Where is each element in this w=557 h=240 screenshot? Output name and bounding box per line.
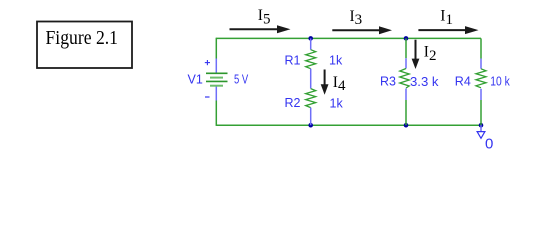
pin: R4 top (480, 59, 482, 69)
wire: R3 branch upper (405, 38, 407, 58)
node: bottom of R3 branch (404, 123, 409, 128)
svg-text:5 V: 5 V (234, 73, 249, 87)
R4 zigzag (476, 69, 486, 88)
wire: R3 branch lower (405, 100, 407, 125)
node: bottom right / ground node (479, 123, 484, 128)
pin: battery top (215, 59, 217, 74)
battery plate short 2 (210, 85, 223, 87)
wire: bottom rail (216, 124, 481, 126)
wire: left branch upper (215, 38, 217, 59)
battery plate short 1 (210, 77, 223, 79)
node: bottom of R1 branch (308, 123, 313, 128)
svg-text:V1: V1 (188, 72, 203, 86)
current arrow I4 (321, 70, 329, 95)
pin: R1 bottom + R2 top (310, 69, 312, 89)
svg-text:I5: I5 (258, 7, 271, 27)
ground (477, 125, 493, 152)
pin: battery bottom (215, 86, 217, 101)
pin: R4 bottom (480, 89, 482, 100)
svg-text:R3: R3 (380, 75, 396, 89)
svg-text:10 k: 10 k (490, 75, 510, 89)
svg-text:I4: I4 (333, 74, 346, 94)
node: top of R1 branch (308, 36, 313, 41)
current arrow I5 (230, 25, 291, 33)
battery minus sign (205, 96, 210, 98)
current arrow I1 (418, 26, 478, 34)
ground triangle (477, 132, 485, 139)
svg-text:1k: 1k (330, 97, 344, 111)
wire: top rail (216, 37, 481, 39)
resistor R1 (285, 38, 343, 88)
node: top of R3 branch (404, 36, 409, 41)
R3 zigzag (400, 69, 409, 89)
pin: ground stub (480, 125, 482, 131)
battery plate long 2 (206, 80, 228, 82)
resistor R3 (380, 38, 439, 125)
svg-text:R1: R1 (285, 53, 301, 67)
battery plate long 1 (206, 72, 228, 74)
battery plus sign (205, 60, 210, 65)
svg-text:0: 0 (485, 136, 493, 153)
svg-text:I2: I2 (424, 44, 437, 64)
battery V1 (188, 59, 249, 101)
svg-text:Figure 2.1: Figure 2.1 (46, 27, 119, 49)
pin: R1 top (310, 38, 312, 49)
wire: R4 branch lower (480, 100, 482, 125)
svg-text:3.3 k: 3.3 k (410, 75, 439, 89)
resistor R2 (285, 89, 344, 126)
wire: R4 branch upper (right edge) (480, 38, 482, 58)
svg-text:R2: R2 (285, 96, 301, 110)
svg-text:I3: I3 (350, 8, 363, 28)
resistor R4 (455, 38, 511, 125)
wire: left branch lower (215, 101, 217, 126)
current arrow I3 (332, 26, 392, 34)
pin: R3 top (405, 58, 407, 68)
current arrow I2 (412, 40, 420, 69)
pin: R2 bottom (310, 108, 312, 126)
R1 zigzag (306, 50, 316, 69)
pin: R3 bottom (405, 89, 407, 101)
svg-text:1k: 1k (329, 53, 343, 67)
svg-text:I1: I1 (440, 8, 453, 28)
R2 zigzag (306, 89, 316, 108)
svg-text:R4: R4 (455, 75, 471, 89)
figure label box (37, 22, 132, 69)
